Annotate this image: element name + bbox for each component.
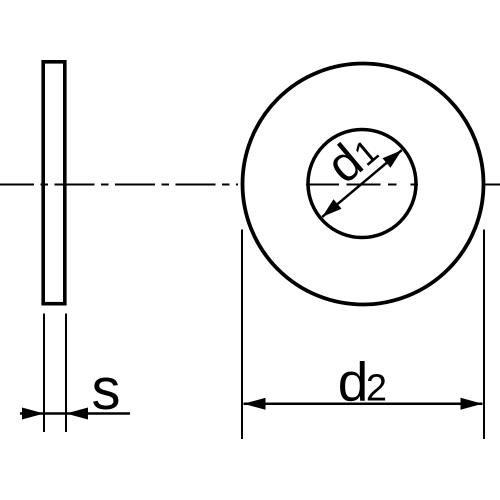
d1 dimension line (diagonal) [322,150,402,217]
washer side view rectangle [43,62,65,304]
d2 extension line right [483,230,485,440]
washer outer circle d2 [243,64,484,305]
washer inner circle d1 [308,130,416,238]
d2 dimension line [244,403,483,406]
centerline right stub [484,184,500,186]
s arrowhead pointing right at left ext line [22,408,44,420]
s extension line right [65,314,67,433]
centerline segment inside inner circle [306,184,339,186]
d1 arrowhead lower left [318,199,341,221]
d2 arrowhead left [244,398,266,410]
d2 extension line left [241,230,243,440]
centerline dot [388,184,397,186]
centerline left segment (dash-dot) [0,184,238,186]
s dimension line [20,412,130,415]
s arrowhead pointing left at right ext line [66,408,88,420]
d2 arrowhead right [461,398,483,410]
centerline dash [411,184,419,186]
d1 arrowhead upper right [382,145,405,167]
s extension line left [43,314,45,433]
svg-text:s: s [92,357,121,422]
centerline dash [347,184,381,186]
